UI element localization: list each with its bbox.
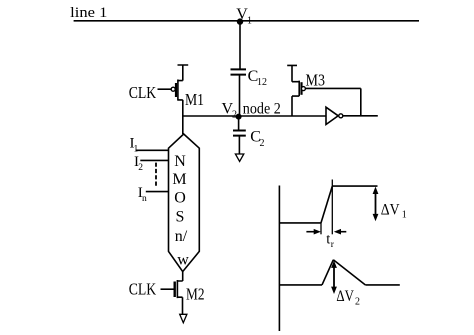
svg-text:1: 1: [247, 16, 252, 27]
arrowhead dV2 bottom: [331, 287, 337, 294]
wire CLK to M2 gate: [161, 288, 174, 290]
svg-text:ΔV: ΔV: [336, 288, 354, 305]
arrow dV1 shaft: [375, 190, 377, 218]
NMOS network block: [169, 134, 200, 272]
arrow dV2 shaft: [333, 265, 335, 291]
svg-text:CLK: CLK: [129, 280, 157, 299]
svg-text:ΔV: ΔV: [381, 202, 400, 219]
wire M3 gate to feedback: [305, 87, 360, 89]
arrowhead tr left: [314, 229, 321, 235]
wire input I1: [136, 149, 169, 151]
waveform V2 rising edge: [322, 260, 333, 285]
transistor M1 gate bubble: [171, 87, 175, 91]
inverter U1 output bubble: [339, 114, 343, 118]
svg-text:2: 2: [138, 163, 143, 173]
waveform V2 decay edge: [333, 260, 365, 285]
svg-text:S: S: [176, 209, 185, 226]
transistor M1 drain T-bar terminal: [178, 65, 189, 81]
wire node 2 horizontal: [183, 115, 326, 117]
transistor M3 gate bar: [300, 82, 302, 95]
wire input I2: [140, 159, 168, 161]
wire inverter output: [343, 115, 378, 117]
svg-text:M1: M1: [185, 90, 204, 109]
dashed ellipsis between I2 and In: [155, 163, 157, 186]
waveform V2 flat tail: [365, 284, 400, 286]
waveform V1 baseline: [279, 222, 321, 224]
arrowhead dV1 top: [373, 187, 379, 194]
transistor M1 gate bar: [175, 83, 177, 97]
wire feedback vertical: [360, 88, 362, 115]
capacitor C2 wire from node 2: [238, 117, 240, 131]
transistor M2 gate bar: [173, 282, 175, 298]
svg-text:1: 1: [134, 144, 139, 154]
capacitor C2: [233, 131, 246, 136]
arrowhead dV1 bottom: [373, 214, 379, 221]
wire NMOS block to M2: [182, 272, 184, 281]
wire V1 node vertical to C12: [239, 21, 241, 70]
wire node 2 down to NMOS block: [182, 116, 184, 134]
svg-text:line 1: line 1: [70, 5, 107, 21]
svg-text:CLK: CLK: [129, 83, 157, 102]
arrow tr right shaft: [339, 231, 347, 233]
tick tr left: [320, 223, 322, 234]
svg-text:M2: M2: [186, 284, 205, 303]
arrowhead tr right: [334, 229, 341, 235]
inverter U1: [326, 107, 338, 124]
junction dot node 2: [236, 114, 242, 120]
transistor M3 source T-bar terminal: [287, 65, 297, 81]
waveform V1 rising edge: [321, 186, 332, 223]
waveform V1 top level: [332, 185, 377, 187]
svg-text:M: M: [172, 171, 186, 188]
svg-text:M3: M3: [306, 71, 326, 90]
arrow tr left shaft: [306, 231, 315, 233]
svg-text:N: N: [174, 153, 186, 170]
wire C2 to ground: [238, 136, 240, 154]
arrowhead dV2 top: [331, 261, 337, 268]
tick tr right: [331, 180, 333, 235]
transistor M2 (NMOS) body: [177, 280, 182, 314]
transistor M1 (PMOS) body: [178, 80, 183, 117]
wire C12 to node 2: [239, 75, 241, 116]
wire input In: [146, 191, 169, 193]
ground below M2: [180, 314, 187, 322]
transistor M3 (PMOS, mirrored) body: [292, 81, 299, 116]
svg-text:2: 2: [232, 110, 237, 121]
svg-text:t: t: [326, 231, 330, 247]
svg-text:n/: n/: [175, 228, 188, 245]
svg-text:2: 2: [260, 138, 265, 149]
wire CLK to M1 gate: [158, 88, 172, 90]
ground below C2: [235, 154, 243, 161]
svg-text:r: r: [331, 240, 335, 250]
svg-text:node 2: node 2: [243, 101, 281, 118]
svg-text:1: 1: [402, 209, 407, 220]
waveform V2 baseline: [279, 284, 322, 286]
junction dot node V1: [237, 18, 243, 24]
svg-text:w: w: [177, 252, 189, 269]
svg-text:12: 12: [257, 77, 267, 88]
svg-text:2: 2: [355, 297, 360, 308]
wire line 1 (top rail): [74, 20, 419, 22]
waveform axis vertical: [278, 186, 280, 332]
transistor M3 gate bubble: [301, 87, 305, 91]
capacitor C12: [231, 69, 247, 74]
svg-text:n: n: [142, 194, 147, 204]
svg-text:O: O: [174, 190, 186, 207]
